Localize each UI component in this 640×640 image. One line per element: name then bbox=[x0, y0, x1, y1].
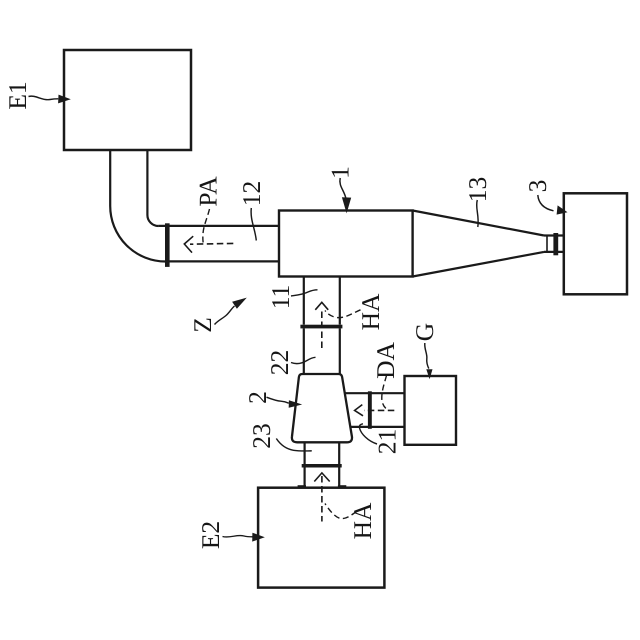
leader 21 bbox=[359, 424, 377, 444]
leader 11 bbox=[291, 290, 318, 296]
pipe 22 left wall bbox=[303, 328, 305, 374]
flow arrow HA lower head bbox=[314, 473, 329, 482]
pipe 11 right wall bbox=[339, 277, 341, 325]
svg-text:2: 2 bbox=[243, 391, 272, 404]
pipe 22 right wall bbox=[339, 328, 341, 374]
pipe 21 top wall bbox=[345, 392, 405, 394]
flange at nozzle bbox=[553, 233, 558, 255]
dashed leader from DA bbox=[382, 376, 387, 410]
flow arrow DA stem bbox=[364, 409, 394, 411]
arrowhead 1 bbox=[342, 197, 351, 213]
arrowhead E1 bbox=[58, 95, 71, 104]
leader E2 bbox=[223, 535, 253, 537]
flow arrow HA lower stem bbox=[321, 476, 323, 522]
svg-text:HA: HA bbox=[356, 293, 385, 330]
svg-text:G: G bbox=[410, 323, 439, 341]
leader 22 bbox=[291, 357, 316, 363]
svg-text:11: 11 bbox=[266, 285, 295, 310]
dashed leader from HA upper bbox=[325, 310, 361, 318]
nozzle ring bbox=[546, 236, 548, 252]
flow arrow DA head bbox=[355, 405, 363, 416]
main body 1 bbox=[279, 211, 413, 277]
box G bbox=[405, 376, 457, 445]
svg-text:22: 22 bbox=[265, 350, 294, 376]
leader 23 bbox=[276, 439, 312, 452]
box 3 bbox=[564, 193, 627, 294]
svg-text:E2: E2 bbox=[196, 521, 225, 549]
arrowhead 3 bbox=[557, 205, 568, 214]
flange on pipe 23 bbox=[302, 464, 342, 468]
leader 3 bbox=[538, 195, 554, 211]
svg-text:Z: Z bbox=[188, 317, 217, 333]
pipe below flange to E2 left wall bbox=[304, 468, 306, 488]
flow arrow PA head bbox=[184, 236, 193, 252]
dashed leader from HA lower bbox=[325, 504, 357, 519]
cone 13 bottom wall bbox=[413, 252, 544, 277]
mixer body 2 (trapezoid) bbox=[292, 374, 352, 442]
arrowhead E2 bbox=[252, 533, 265, 542]
elbow pipe inner wall bbox=[147, 150, 158, 226]
pipe 21 bottom wall bbox=[350, 426, 404, 428]
pipe 11 left wall bbox=[303, 277, 305, 325]
svg-text:21: 21 bbox=[373, 429, 402, 455]
arrowhead G bbox=[426, 369, 432, 379]
cone 13 top wall bbox=[413, 211, 544, 236]
leader 2 bbox=[267, 397, 289, 403]
flow arrow HA upper head bbox=[315, 302, 328, 310]
leader Z bbox=[215, 306, 235, 325]
pipe 23 left wall bbox=[304, 442, 306, 464]
leader 13 bbox=[477, 200, 479, 227]
svg-text:12: 12 bbox=[237, 181, 266, 207]
leader 1 bbox=[340, 178, 346, 198]
pipe below flange to E2 right wall bbox=[338, 468, 340, 488]
elbow pipe outer wall bbox=[110, 150, 166, 262]
flange at elbow outlet bbox=[165, 223, 170, 267]
svg-text:DA: DA bbox=[371, 342, 400, 379]
svg-text:E1: E1 bbox=[3, 81, 32, 109]
svg-text:HA: HA bbox=[348, 502, 377, 539]
svg-text:23: 23 bbox=[247, 423, 276, 449]
flow arrow HA upper stem bbox=[321, 312, 323, 351]
leader 12 bbox=[251, 208, 256, 241]
dashed leader from PA bbox=[203, 209, 210, 246]
arrowhead Z bbox=[232, 298, 247, 309]
nozzle top wall bbox=[544, 234, 564, 236]
nozzle bottom wall bbox=[544, 251, 564, 253]
leader E1 bbox=[29, 96, 59, 100]
pipe end tick left at E2 inlet bbox=[298, 485, 306, 488]
arrowhead 2 bbox=[289, 400, 303, 408]
flow arrow PA stem bbox=[190, 242, 233, 245]
svg-text:13: 13 bbox=[463, 177, 492, 203]
svg-text:1: 1 bbox=[326, 166, 355, 179]
pipe 23 right wall bbox=[338, 442, 340, 464]
leader G bbox=[425, 343, 429, 369]
flange on pipe 21 bbox=[368, 391, 372, 429]
svg-text:3: 3 bbox=[523, 180, 552, 193]
duct 12 top wall bbox=[158, 225, 279, 227]
box E2 bbox=[258, 488, 384, 588]
svg-text:PA: PA bbox=[194, 176, 223, 207]
flange between pipe 11 and 22 bbox=[300, 325, 342, 329]
duct 12 bottom wall bbox=[166, 260, 279, 262]
box E1 bbox=[64, 50, 191, 150]
pipe end tick right at E2 inlet bbox=[338, 485, 346, 488]
